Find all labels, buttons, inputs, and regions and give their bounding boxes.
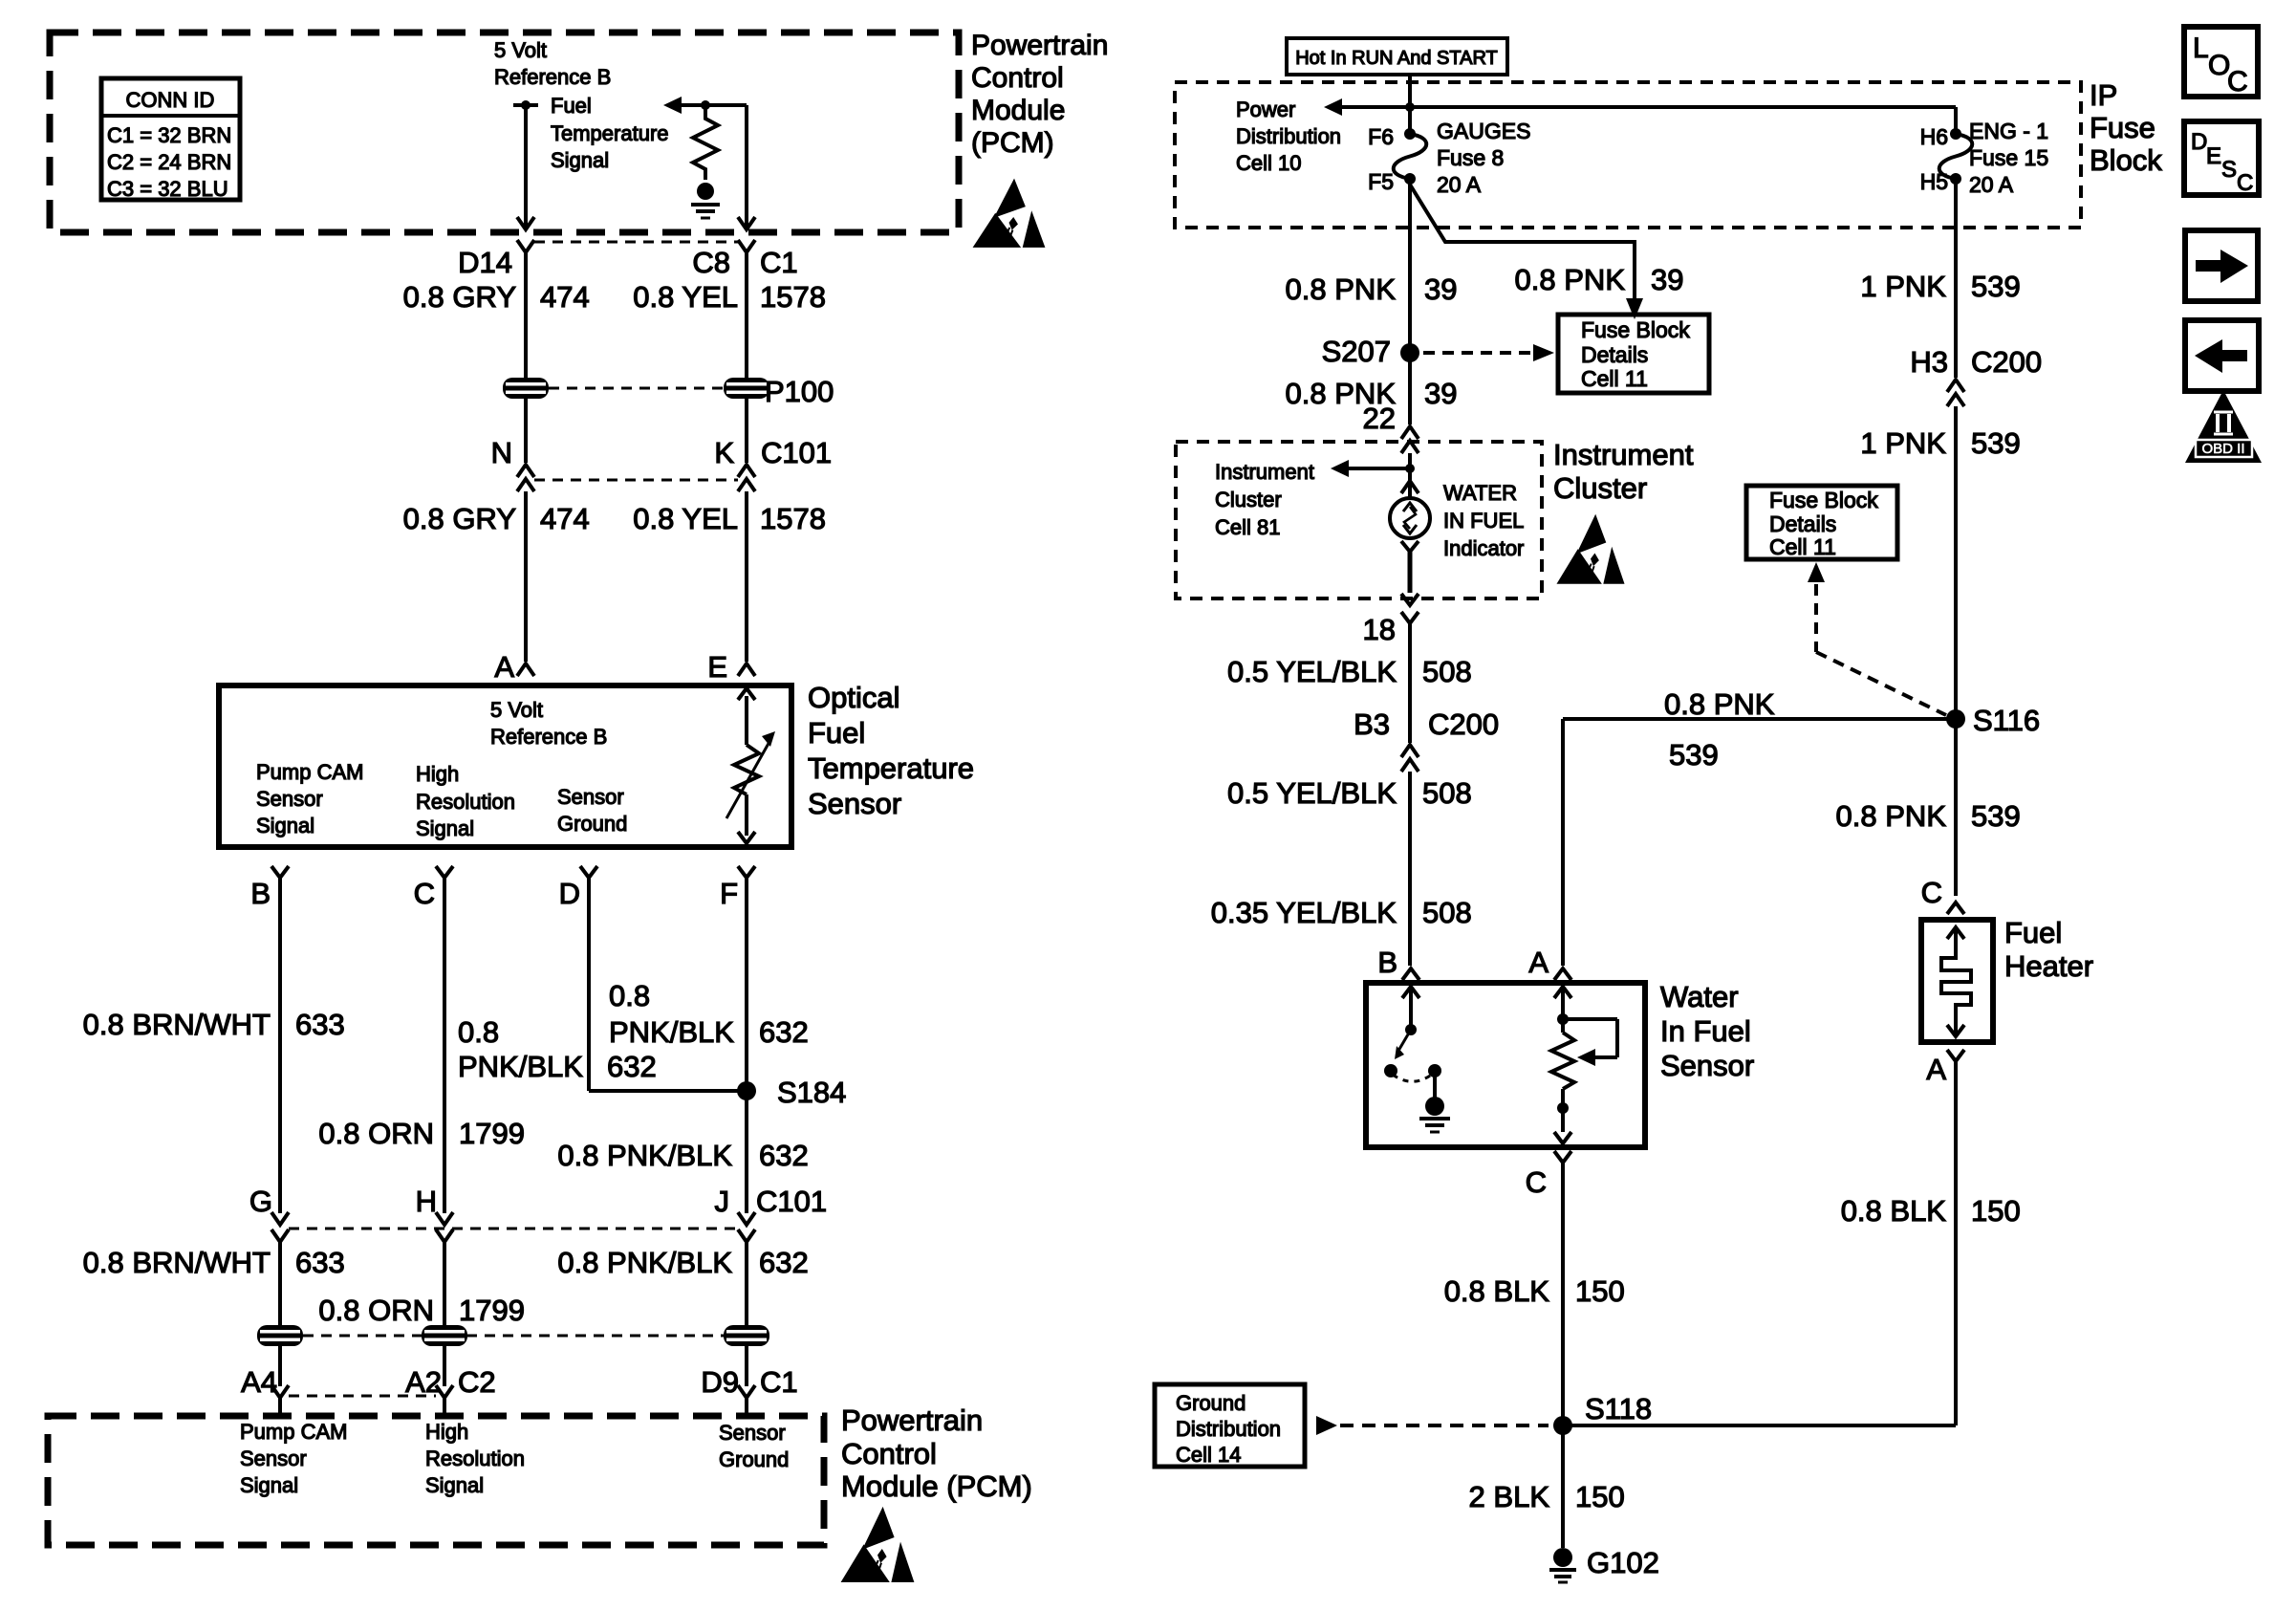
- svg-text:Sensor: Sensor: [557, 785, 624, 809]
- svg-text:Fuse 15: Fuse 15: [1969, 145, 2048, 170]
- wire 150 BLK from sensor C: [1561, 1163, 1565, 1548]
- icon DESC box: [2184, 121, 2259, 196]
- svg-text:Distribution: Distribution: [1236, 124, 1341, 148]
- label 0.8 PNK 39 branch: [1515, 263, 1684, 296]
- svg-text:Instrument: Instrument: [1553, 438, 1694, 471]
- connector chevron above indicator: [1401, 481, 1419, 493]
- svg-text:C: C: [1526, 1165, 1547, 1199]
- label 0.5 YEL/BLK 508 upper: [1227, 655, 1472, 688]
- label pin N: [491, 436, 512, 469]
- svg-text:High: High: [416, 762, 459, 786]
- svg-text:S207: S207: [1322, 335, 1391, 368]
- svg-text:A: A: [1528, 946, 1549, 979]
- svg-text:1799: 1799: [459, 1294, 525, 1327]
- label pin C fuel heater: [1921, 876, 1942, 909]
- label box Fuse Block Details Cell 11 upper: [1558, 315, 1709, 393]
- svg-text:Cell 14: Cell 14: [1176, 1443, 1241, 1467]
- svg-text:(PCM): (PCM): [971, 127, 1054, 159]
- svg-text:C8: C8: [692, 246, 730, 279]
- svg-text:Indicator: Indicator: [1443, 536, 1524, 560]
- label terminal F6: [1368, 124, 1394, 149]
- svg-text:Fuse Block: Fuse Block: [1581, 317, 1690, 342]
- svg-text:S116: S116: [1973, 704, 2040, 737]
- svg-text:Fuse Block: Fuse Block: [1769, 488, 1878, 512]
- svg-text:Block: Block: [2090, 143, 2162, 177]
- wire 1578 YEL lower segment: [745, 491, 748, 662]
- label pin C8: [692, 246, 730, 279]
- label 0.8 ORN 1799 lower: [318, 1294, 525, 1327]
- label 0.8 PNK/BLK 632 (pin D wire): [458, 1015, 657, 1083]
- svg-text:E: E: [707, 650, 727, 684]
- wire 39 PNK branch to fuse details: [1410, 185, 1635, 300]
- label Instrument Cluster title: [1553, 438, 1694, 505]
- svg-text:39: 39: [1424, 377, 1457, 410]
- label circuit 22: [1363, 402, 1396, 435]
- label box Ground Distribution Cell 14: [1155, 1384, 1305, 1467]
- svg-text:Water: Water: [1660, 980, 1739, 1013]
- label circuit 18: [1363, 613, 1396, 646]
- svg-text:C101: C101: [761, 436, 832, 469]
- connector PCM C1 forks and dashed link: [517, 240, 755, 252]
- resistor water sensor sense element: [1551, 987, 1617, 1143]
- label pin H: [416, 1185, 437, 1218]
- connector fork below fuel heater: [1947, 1050, 1964, 1061]
- svg-text:39: 39: [1651, 263, 1683, 296]
- wire 632 PNK/BLK from pin F: [745, 878, 748, 1213]
- svg-text:Signal: Signal: [416, 816, 474, 840]
- svg-text:1578: 1578: [760, 280, 826, 314]
- svg-text:Fuel: Fuel: [2004, 916, 2062, 949]
- svg-text:0.8 BLK: 0.8 BLK: [1444, 1274, 1550, 1308]
- icon OBD II triangle: [2185, 390, 2262, 463]
- svg-text:Sensor: Sensor: [719, 1421, 786, 1445]
- label pin G: [249, 1185, 272, 1218]
- svg-text:Fuse 8: Fuse 8: [1437, 145, 1504, 170]
- wire 508 YEL/BLK middle: [1408, 772, 1412, 966]
- svg-text:474: 474: [540, 280, 590, 314]
- svg-text:Resolution: Resolution: [425, 1447, 525, 1470]
- svg-text:Power: Power: [1236, 98, 1295, 121]
- label Fuel Temperature Signal: [551, 94, 669, 172]
- wire 39 PNK from F5: [1408, 179, 1412, 424]
- svg-text:High: High: [425, 1420, 468, 1444]
- label 0.5 YEL/BLK 508 middle: [1227, 776, 1472, 810]
- icon arrow left box: [2185, 320, 2259, 391]
- svg-text:J: J: [715, 1185, 730, 1218]
- svg-text:Details: Details: [1769, 511, 1836, 536]
- label connector C2: [458, 1365, 496, 1399]
- switch water sensor (internal): [1384, 987, 1441, 1098]
- symbol ESD caution bottom: [841, 1507, 915, 1582]
- wire dashed reference S207 to details: [1423, 344, 1554, 361]
- svg-text:C200: C200: [1971, 345, 2042, 379]
- svg-text:0.8: 0.8: [609, 979, 650, 1012]
- label 0.8 PNK 539 horizontal: [1664, 687, 1775, 772]
- svg-text:F6: F6: [1368, 124, 1394, 149]
- svg-text:Distribution: Distribution: [1176, 1417, 1281, 1441]
- connector ID table CONN ID: [101, 78, 240, 201]
- wire 474 GRY upper segment: [524, 252, 528, 378]
- svg-text:Sensor: Sensor: [256, 787, 323, 811]
- wire 1578 YEL upper segment: [745, 252, 748, 378]
- label 0.8 PNK/BLK 632 below S184: [557, 1139, 808, 1172]
- svg-text:Pump CAM: Pump CAM: [240, 1420, 347, 1444]
- connector fork 18 below cluster: [1401, 612, 1419, 623]
- label pin C: [414, 877, 435, 910]
- svg-text:474: 474: [540, 502, 590, 535]
- wire 1799 ORN lower: [443, 1242, 446, 1325]
- svg-text:B: B: [250, 877, 271, 910]
- svg-text:Resolution: Resolution: [416, 790, 515, 814]
- label 2 BLK 150: [1469, 1480, 1625, 1513]
- label 1 PNK 539 upper: [1860, 270, 2020, 303]
- svg-text:0.8 PNK/BLK: 0.8 PNK/BLK: [557, 1139, 732, 1172]
- svg-text:A: A: [494, 650, 514, 684]
- svg-text:632: 632: [607, 1050, 657, 1083]
- svg-text:0.8 GRY: 0.8 GRY: [403, 502, 516, 535]
- svg-text:150: 150: [1971, 1194, 2021, 1228]
- connector C200 right chevrons: [1947, 380, 1964, 406]
- svg-text:508: 508: [1422, 655, 1472, 688]
- resistor PCM pull-up: [693, 107, 718, 180]
- label Optical Fuel Temperature Sensor title: [808, 681, 974, 820]
- arrow into Fuse Block Details: [1626, 298, 1643, 319]
- wire to pin D9: [745, 1346, 748, 1386]
- arrow into PCM signal (left arrowhead): [663, 97, 682, 114]
- splice S118: [1553, 1392, 1956, 1435]
- svg-text:OBD II: OBD II: [2201, 441, 2244, 457]
- svg-text:0.8 PNK: 0.8 PNK: [1664, 687, 1775, 721]
- label 5 Volt Reference B (sensor internal): [490, 698, 607, 749]
- icon arrow right box: [2185, 230, 2258, 301]
- svg-text:B3: B3: [1354, 707, 1390, 741]
- svg-text:0.5 YEL/BLK: 0.5 YEL/BLK: [1227, 655, 1397, 688]
- label 5 Volt Reference B (PCM internal): [494, 38, 611, 89]
- svg-text:22: 22: [1363, 402, 1396, 435]
- splice S207: [1322, 335, 1419, 368]
- svg-text:Cell 11: Cell 11: [1581, 366, 1648, 391]
- icon LOC box: [2184, 27, 2258, 98]
- label 0.8 PNK/BLK 632 (pin F wire): [609, 979, 809, 1049]
- svg-text:In Fuel: In Fuel: [1660, 1014, 1751, 1048]
- svg-text:Cell 10: Cell 10: [1236, 151, 1301, 175]
- svg-text:S: S: [2221, 157, 2237, 183]
- svg-text:L: L: [2193, 33, 2209, 64]
- label terminal H6: [1920, 124, 1948, 149]
- label pin A2: [405, 1365, 442, 1399]
- label 0.35 YEL/BLK 508 lower: [1211, 896, 1472, 929]
- svg-text:A: A: [1926, 1053, 1946, 1086]
- splice S184: [737, 1076, 846, 1109]
- svg-text:Signal: Signal: [551, 148, 609, 172]
- label 0.8 YEL 1578 lower: [633, 502, 826, 535]
- label pin A fuel heater: [1926, 1053, 1946, 1086]
- symbol ESD caution top: [973, 179, 1046, 248]
- svg-text:D: D: [2191, 129, 2207, 155]
- svg-text:GAUGES: GAUGES: [1437, 119, 1530, 143]
- wire 539 PNK sensor A to S116: [1563, 719, 1956, 966]
- label 0.8 ORN 1799: [318, 1117, 525, 1150]
- label terminal F5: [1368, 169, 1394, 194]
- wire 150 BLK right vertical: [1954, 1061, 1958, 1425]
- svg-text:539: 539: [1971, 799, 2021, 833]
- svg-text:1578: 1578: [760, 502, 826, 535]
- wire 1799 ORN upper: [443, 878, 446, 1213]
- svg-text:20 A: 20 A: [1437, 172, 1482, 197]
- wire Hot feed into fuse block: [1408, 75, 1412, 134]
- svg-text:Powertrain: Powertrain: [971, 30, 1108, 61]
- svg-text:Instrument: Instrument: [1215, 460, 1314, 484]
- label pin E: [707, 650, 727, 684]
- svg-text:S184: S184: [777, 1076, 846, 1109]
- connector forks at sensor pins A E: [517, 664, 755, 676]
- svg-text:H: H: [416, 1185, 437, 1218]
- label 0.8 PNK 39 below S207: [1286, 377, 1458, 410]
- wire Fuel Temperature Signal (PCM internal): [680, 105, 755, 229]
- svg-text:632: 632: [759, 1246, 809, 1279]
- wire to pin A2: [443, 1346, 446, 1386]
- svg-text:ENG - 1: ENG - 1: [1969, 119, 2048, 143]
- node 5V reference terminal tick: [513, 100, 538, 110]
- svg-text:C: C: [414, 877, 435, 910]
- connector P100 pass-through left: [503, 378, 724, 399]
- svg-text:508: 508: [1422, 776, 1472, 810]
- svg-text:Hot In RUN And START: Hot In RUN And START: [1295, 48, 1498, 69]
- svg-text:PNK/BLK: PNK/BLK: [609, 1015, 734, 1049]
- svg-text:0.8 YEL: 0.8 YEL: [633, 280, 738, 314]
- svg-text:C2: C2: [458, 1365, 496, 1399]
- wire 539 PNK right vertical: [1954, 179, 1958, 378]
- connector fork below water sensor: [1554, 1151, 1571, 1163]
- svg-text:N: N: [491, 436, 512, 469]
- svg-text:0.8 GRY: 0.8 GRY: [403, 280, 516, 314]
- wire 632 PNK/BLK lower: [745, 1242, 748, 1325]
- label Water In Fuel Sensor title: [1660, 980, 1754, 1082]
- svg-text:S118: S118: [1585, 1392, 1652, 1425]
- label 0.8 GRY 474: [403, 280, 590, 314]
- label Powertrain Control Module PCM bottom title: [841, 1403, 1032, 1503]
- svg-text:Fuse: Fuse: [2090, 111, 2155, 144]
- svg-text:0.5 YEL/BLK: 0.5 YEL/BLK: [1227, 776, 1397, 810]
- svg-text:0.8 ORN: 0.8 ORN: [318, 1294, 434, 1327]
- svg-text:0.8 BLK: 0.8 BLK: [1841, 1194, 1947, 1228]
- label GAUGES Fuse 8 20 A: [1437, 119, 1530, 197]
- wire dashed reference details to S116: [1808, 562, 1946, 715]
- label 0.8 BRN/WHT 633 lower: [83, 1246, 345, 1279]
- label connector C101 bottom: [756, 1185, 827, 1218]
- svg-text:Ground: Ground: [557, 812, 627, 836]
- label WATER IN FUEL Indicator: [1443, 481, 1524, 560]
- connector fork at heater pin C: [1947, 903, 1964, 914]
- svg-text:C: C: [2237, 170, 2253, 196]
- svg-text:Temperature: Temperature: [551, 121, 669, 145]
- svg-text:Control: Control: [971, 62, 1064, 94]
- module IP Fuse Block dashed box: [1175, 82, 2081, 228]
- connector forks below sensor B C D F: [271, 866, 755, 878]
- wire cluster feed: [1408, 453, 1412, 498]
- label 0.8 YEL 1578: [633, 280, 826, 314]
- resistor variable optical sensor element: [726, 688, 775, 843]
- label pin J: [715, 1185, 730, 1218]
- label Power Distribution Cell 10: [1236, 98, 1341, 175]
- svg-text:Powertrain: Powertrain: [841, 1403, 983, 1437]
- label High Resolution Signal (sensor internal): [416, 762, 515, 840]
- svg-text:C: C: [1921, 876, 1942, 909]
- label pin A4: [241, 1365, 277, 1399]
- svg-text:K: K: [714, 436, 734, 469]
- svg-text:150: 150: [1575, 1480, 1625, 1513]
- label pin B3 connector C200: [1354, 707, 1499, 741]
- label Sensor Ground (PCM pin): [719, 1421, 789, 1471]
- connector PCM bottom forks: [271, 1385, 755, 1413]
- ground PCM internal: [691, 183, 720, 218]
- svg-text:Reference B: Reference B: [494, 65, 611, 89]
- label pin D14: [458, 246, 512, 279]
- label box Hot In RUN And START: [1287, 38, 1507, 75]
- svg-text:0.35 YEL/BLK: 0.35 YEL/BLK: [1211, 896, 1397, 929]
- wire 508 YEL/BLK upper: [1408, 623, 1412, 743]
- svg-text:20 A: 20 A: [1969, 172, 2014, 197]
- svg-text:1799: 1799: [459, 1117, 525, 1150]
- svg-text:508: 508: [1422, 896, 1472, 929]
- svg-text:Fuel: Fuel: [808, 716, 865, 750]
- connector grommet A2 wire: [422, 1325, 467, 1346]
- label pin B water sensor: [1377, 946, 1397, 979]
- label 0.8 PNK/BLK 632 lower: [557, 1246, 808, 1279]
- svg-text:Temperature: Temperature: [808, 751, 974, 785]
- svg-text:18: 18: [1363, 613, 1396, 646]
- svg-text:C3 = 32 BLU: C3 = 32 BLU: [107, 177, 228, 201]
- label pin D: [559, 877, 580, 910]
- svg-text:Module (PCM): Module (PCM): [841, 1469, 1032, 1503]
- label pin K: [714, 436, 734, 469]
- svg-text:Signal: Signal: [256, 814, 314, 838]
- svg-text:D9: D9: [701, 1365, 739, 1399]
- svg-text:0.8: 0.8: [458, 1015, 499, 1049]
- label 0.8 PNK 39 main: [1286, 272, 1458, 306]
- module PCM bottom dashed box: [48, 1416, 824, 1545]
- connector C101 chevrons N K: [517, 465, 755, 491]
- svg-text:0.8 YEL: 0.8 YEL: [633, 502, 738, 535]
- svg-text:0.8 BRN/WHT: 0.8 BRN/WHT: [83, 1008, 271, 1041]
- svg-text:Ground: Ground: [719, 1447, 789, 1471]
- svg-text:Fuel: Fuel: [551, 94, 592, 118]
- svg-text:Cluster: Cluster: [1553, 471, 1647, 505]
- svg-text:D14: D14: [458, 246, 512, 279]
- svg-text:G102: G102: [1587, 1546, 1659, 1579]
- svg-text:633: 633: [295, 1246, 345, 1279]
- label Powertrain Control Module PCM top title: [971, 30, 1108, 159]
- component Water In Fuel Sensor box: [1366, 983, 1645, 1147]
- label pin A water sensor: [1528, 946, 1549, 979]
- label connector C101 top: [761, 436, 832, 469]
- wire 632 PNK/BLK from pin D: [589, 878, 747, 1091]
- svg-text:WATER: WATER: [1443, 481, 1517, 505]
- arrow to Power Distribution: [1324, 98, 1342, 116]
- svg-text:Cell 81: Cell 81: [1215, 515, 1280, 539]
- node junction on signal line: [701, 100, 710, 110]
- svg-text:H6: H6: [1920, 124, 1948, 149]
- wire 474 GRY lower segment: [524, 491, 528, 662]
- svg-text:H3: H3: [1910, 345, 1948, 379]
- svg-text:632: 632: [759, 1015, 809, 1049]
- label Pump CAM Sensor Signal (sensor internal): [256, 760, 363, 838]
- svg-text:D: D: [559, 877, 580, 910]
- label Fuel Heater title: [2004, 916, 2093, 983]
- svg-text:CONN ID: CONN ID: [126, 88, 215, 112]
- svg-text:Sensor: Sensor: [1660, 1049, 1754, 1082]
- svg-text:Signal: Signal: [425, 1473, 484, 1497]
- label connector C1 bottom: [760, 1365, 798, 1399]
- svg-text:1 PNK: 1 PNK: [1860, 270, 1946, 303]
- module PCM top dashed box: [50, 33, 959, 232]
- svg-text:IN FUEL: IN FUEL: [1443, 509, 1524, 533]
- svg-text:Cluster: Cluster: [1215, 488, 1282, 511]
- node cluster junction: [1405, 464, 1415, 473]
- svg-text:C2 = 24 BRN: C2 = 24 BRN: [107, 150, 231, 174]
- label Pump CAM Sensor Signal (PCM pin): [240, 1420, 347, 1497]
- node feed junction: [1405, 102, 1415, 112]
- svg-text:2 BLK: 2 BLK: [1469, 1480, 1550, 1513]
- svg-text:Sensor: Sensor: [808, 787, 901, 820]
- label pin D9: [701, 1365, 739, 1399]
- svg-text:C101: C101: [756, 1185, 827, 1218]
- wire 633 BRN/WHT lower: [278, 1242, 282, 1325]
- component Fuel Heater box: [1921, 920, 1993, 1042]
- svg-text:Optical: Optical: [808, 681, 899, 714]
- wire 5 Volt Reference B to pin D14: [517, 105, 534, 229]
- label Instrument Cluster Cell 81: [1215, 460, 1314, 539]
- svg-text:539: 539: [1971, 270, 2021, 303]
- label pin H3 connector C200: [1910, 345, 2042, 379]
- svg-text:633: 633: [295, 1008, 345, 1041]
- connector grommet A4 wire: [257, 1325, 303, 1346]
- wire 633 BRN/WHT upper: [278, 878, 282, 1213]
- svg-text:Cell 11: Cell 11: [1769, 534, 1836, 559]
- ground G102: [1549, 1546, 1659, 1582]
- connector P100 pass-through right: [724, 375, 834, 408]
- svg-text:G: G: [249, 1185, 272, 1218]
- label pin A: [494, 650, 514, 684]
- splice S116: [1946, 704, 2040, 737]
- wire to pin A4: [278, 1346, 282, 1386]
- indicator WATER IN FUEL lamp: [1390, 498, 1430, 538]
- svg-text:B: B: [1377, 946, 1397, 979]
- label IP Fuse Block title: [2090, 78, 2162, 177]
- wire 1578 YEL to C101: [745, 399, 748, 463]
- fuse Fuse 8 GAUGES 20A: [1394, 128, 1427, 185]
- svg-text:5 Volt: 5 Volt: [494, 38, 547, 62]
- label Sensor Ground (sensor internal): [557, 785, 627, 836]
- svg-text:C1: C1: [760, 246, 798, 279]
- heater element fuel heater: [1941, 927, 1971, 1036]
- svg-text:150: 150: [1575, 1274, 1625, 1308]
- wire 474 GRY to C101: [524, 399, 528, 463]
- svg-text:539: 539: [1669, 738, 1719, 772]
- label connector C1: [760, 246, 798, 279]
- svg-text:Details: Details: [1581, 342, 1648, 367]
- label pin F: [720, 877, 738, 910]
- svg-text:0.8 PNK: 0.8 PNK: [1515, 263, 1626, 296]
- svg-text:P100: P100: [765, 375, 834, 408]
- svg-text:539: 539: [1971, 426, 2021, 460]
- label ENG-1 Fuse 15 20 A: [1969, 119, 2048, 197]
- svg-text:0.8 ORN: 0.8 ORN: [318, 1117, 434, 1150]
- wire fuse block bus to ENG-1: [1340, 107, 1956, 134]
- module Instrument Cluster dashed box: [1176, 442, 1542, 598]
- label 0.8 BLK 150 right: [1841, 1194, 2021, 1228]
- fuse Fuse 15 ENG-1 20A: [1939, 128, 1973, 185]
